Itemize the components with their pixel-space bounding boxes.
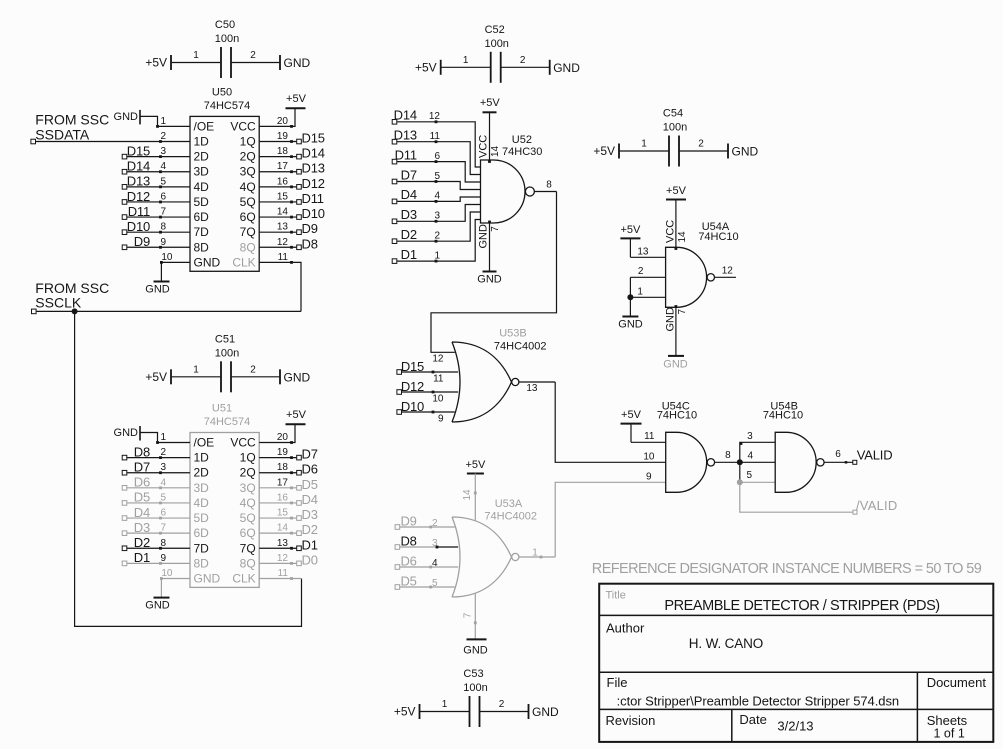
svg-text:8Q: 8Q — [240, 240, 256, 254]
svg-text:D9: D9 — [134, 234, 150, 249]
svg-text:12: 12 — [277, 553, 289, 564]
svg-text:7: 7 — [462, 612, 473, 618]
svg-text::ctor Stripper\Preamble Detect: :ctor Stripper\Preamble Detector Strippe… — [617, 694, 899, 709]
svg-text:/VALID: /VALID — [856, 498, 897, 513]
svg-text:7Q: 7Q — [240, 225, 256, 239]
svg-text:U50: U50 — [212, 87, 232, 99]
svg-text:5Q: 5Q — [240, 195, 256, 209]
svg-text:14: 14 — [490, 145, 501, 157]
svg-text:8D: 8D — [194, 240, 210, 254]
svg-text:13: 13 — [637, 246, 649, 257]
svg-text:D5: D5 — [134, 490, 150, 505]
svg-text:6D: 6D — [194, 210, 210, 224]
svg-text:9: 9 — [438, 413, 444, 424]
svg-text:3D: 3D — [194, 165, 210, 179]
svg-text:+5V: +5V — [593, 144, 615, 158]
svg-text:1: 1 — [193, 50, 199, 61]
svg-text:3D: 3D — [194, 481, 210, 495]
svg-text:74HC574: 74HC574 — [204, 416, 250, 428]
svg-text:+5V: +5V — [286, 409, 307, 421]
svg-text:D2: D2 — [401, 227, 417, 242]
svg-text:GND: GND — [284, 370, 311, 384]
svg-text:100n: 100n — [484, 38, 508, 50]
svg-text:FROM SSC: FROM SSC — [35, 280, 109, 296]
svg-text:File: File — [607, 675, 628, 690]
svg-text:D0: D0 — [302, 552, 318, 567]
svg-text:D13: D13 — [127, 174, 150, 189]
svg-text:2: 2 — [520, 55, 526, 66]
svg-text:3: 3 — [747, 431, 753, 442]
svg-text:D4: D4 — [302, 492, 318, 507]
svg-text:16: 16 — [277, 176, 289, 187]
svg-text:2: 2 — [250, 364, 256, 375]
svg-text:6Q: 6Q — [240, 210, 256, 224]
svg-text:8Q: 8Q — [240, 556, 256, 570]
svg-text:D7: D7 — [302, 447, 318, 462]
svg-text:D5: D5 — [400, 574, 416, 589]
svg-text:D8: D8 — [400, 534, 416, 549]
svg-text:GND: GND — [532, 705, 559, 719]
svg-text:SSCLK: SSCLK — [35, 295, 82, 311]
svg-text:GND: GND — [477, 273, 502, 285]
svg-text:74HC574: 74HC574 — [204, 100, 250, 112]
svg-text:1: 1 — [193, 364, 199, 375]
svg-text:3Q: 3Q — [240, 481, 256, 495]
svg-text:C51: C51 — [215, 333, 235, 345]
svg-text:20: 20 — [277, 432, 289, 443]
svg-text:12: 12 — [432, 354, 444, 365]
svg-text:3Q: 3Q — [240, 165, 256, 179]
svg-text:VCC: VCC — [478, 135, 490, 158]
svg-text:14: 14 — [277, 207, 289, 218]
svg-text:+5V: +5V — [415, 60, 437, 74]
svg-text:VALID: VALID — [857, 448, 893, 463]
svg-text:1D: 1D — [194, 451, 210, 465]
svg-text:2: 2 — [638, 266, 644, 277]
svg-text:+5V: +5V — [145, 56, 167, 70]
svg-text:FROM SSC: FROM SSC — [35, 112, 109, 128]
svg-text:PREAMBLE DETECTOR / STRIPPER (: PREAMBLE DETECTOR / STRIPPER (PDS) — [664, 598, 939, 614]
svg-text:GND: GND — [663, 359, 688, 371]
svg-text:D12: D12 — [127, 189, 150, 204]
svg-text:1: 1 — [641, 139, 647, 150]
svg-text:2D: 2D — [194, 150, 210, 164]
svg-text:4Q: 4Q — [240, 180, 256, 194]
svg-text:GND: GND — [478, 224, 490, 249]
svg-text:2: 2 — [250, 50, 256, 61]
svg-text:U52: U52 — [512, 134, 532, 146]
svg-text:7: 7 — [677, 309, 688, 315]
svg-text:8D: 8D — [194, 556, 210, 570]
svg-text:17: 17 — [277, 161, 289, 172]
svg-text:5Q: 5Q — [240, 511, 256, 525]
svg-text:D11: D11 — [395, 147, 417, 162]
svg-text:6D: 6D — [194, 526, 210, 540]
svg-text:5D: 5D — [194, 195, 210, 209]
svg-text:2: 2 — [698, 139, 704, 150]
svg-text:1Q: 1Q — [240, 451, 256, 465]
svg-text:8: 8 — [546, 180, 552, 191]
svg-text:4: 4 — [747, 451, 753, 462]
svg-text:C52: C52 — [485, 24, 505, 36]
svg-text:H. W. CANO: H. W. CANO — [689, 636, 763, 651]
svg-text:19: 19 — [277, 131, 289, 142]
svg-text:74HC10: 74HC10 — [698, 231, 738, 243]
svg-text:D2: D2 — [134, 535, 150, 550]
svg-text:VCC: VCC — [230, 119, 256, 133]
svg-text:D3: D3 — [302, 507, 318, 522]
svg-text:Revision: Revision — [606, 713, 656, 728]
svg-text:D10: D10 — [302, 206, 325, 221]
svg-text:/OE: /OE — [194, 119, 215, 133]
svg-text:D1: D1 — [302, 537, 318, 552]
svg-text:13: 13 — [526, 383, 538, 394]
svg-text:D9: D9 — [400, 514, 416, 529]
svg-text:D2: D2 — [302, 522, 318, 537]
svg-text:Document: Document — [927, 675, 987, 690]
svg-text:/OE: /OE — [194, 436, 215, 450]
svg-text:7Q: 7Q — [240, 541, 256, 555]
svg-text:74HC10: 74HC10 — [763, 410, 803, 422]
svg-text:16: 16 — [277, 492, 289, 503]
svg-text:8: 8 — [725, 450, 731, 461]
svg-text:1: 1 — [463, 55, 469, 66]
svg-text:13: 13 — [277, 538, 289, 549]
svg-text:D1: D1 — [134, 550, 150, 565]
svg-text:15: 15 — [277, 508, 289, 519]
svg-text:D11: D11 — [302, 191, 324, 206]
svg-text:7D: 7D — [194, 225, 210, 239]
svg-text:+5V: +5V — [666, 185, 687, 197]
svg-text:U53A: U53A — [495, 498, 523, 510]
svg-text:D4: D4 — [134, 505, 150, 520]
svg-text:7: 7 — [490, 226, 501, 232]
svg-text:GND: GND — [114, 427, 139, 439]
svg-text:9: 9 — [646, 471, 652, 482]
svg-text:74HC10: 74HC10 — [657, 410, 697, 422]
svg-text:+5V: +5V — [286, 93, 307, 105]
svg-text:Title: Title — [606, 590, 626, 602]
svg-text:VCC: VCC — [230, 436, 256, 450]
svg-text:U51: U51 — [212, 403, 232, 415]
svg-text:12: 12 — [277, 237, 289, 248]
svg-text:13: 13 — [277, 222, 289, 233]
svg-text:5D: 5D — [194, 511, 210, 525]
svg-text:D11: D11 — [128, 204, 150, 219]
svg-text:74HC4002: 74HC4002 — [494, 341, 547, 353]
svg-text:10: 10 — [643, 451, 655, 462]
svg-text:D3: D3 — [134, 520, 150, 535]
svg-text:Author: Author — [606, 621, 645, 636]
svg-text:14: 14 — [677, 231, 688, 243]
svg-text:2: 2 — [499, 699, 505, 710]
svg-text:1: 1 — [160, 432, 166, 443]
svg-text:10: 10 — [432, 393, 444, 404]
svg-text:10: 10 — [161, 252, 173, 263]
svg-text:11: 11 — [433, 373, 444, 384]
svg-text:D1: D1 — [401, 247, 417, 262]
svg-text:+5V: +5V — [394, 705, 416, 719]
svg-text:REFERENCE DESIGNATOR INSTANCE: REFERENCE DESIGNATOR INSTANCE NUMBERS = … — [592, 561, 982, 577]
svg-text:+5V: +5V — [465, 459, 486, 471]
svg-text:GND: GND — [145, 599, 170, 611]
svg-text:14: 14 — [277, 523, 289, 534]
svg-text:GND: GND — [145, 283, 170, 295]
svg-text:15: 15 — [277, 191, 289, 202]
svg-text:11: 11 — [644, 431, 655, 442]
svg-text:4D: 4D — [194, 180, 210, 194]
svg-text:D14: D14 — [127, 159, 150, 174]
svg-text:D7: D7 — [134, 460, 150, 475]
svg-text:GND: GND — [194, 571, 221, 585]
svg-text:6: 6 — [835, 449, 841, 460]
svg-text:74HC30: 74HC30 — [502, 146, 542, 158]
svg-text:CLK: CLK — [232, 571, 255, 585]
svg-text:+5V: +5V — [621, 409, 642, 421]
svg-text:5: 5 — [746, 470, 752, 481]
svg-text:D3: D3 — [401, 207, 417, 222]
svg-text:D8: D8 — [302, 236, 318, 251]
svg-text:VCC: VCC — [664, 220, 676, 243]
svg-text:100n: 100n — [215, 33, 239, 45]
svg-text:2Q: 2Q — [240, 466, 256, 480]
svg-text:U53B: U53B — [499, 328, 527, 340]
svg-text:+5V: +5V — [145, 370, 167, 384]
svg-text:10: 10 — [161, 568, 173, 579]
svg-text:GND: GND — [194, 255, 221, 269]
svg-text:Date: Date — [739, 712, 766, 727]
svg-text:100n: 100n — [463, 682, 487, 694]
svg-text:D10: D10 — [127, 219, 150, 234]
svg-text:D6: D6 — [400, 554, 416, 569]
svg-text:18: 18 — [277, 146, 289, 157]
svg-text:1: 1 — [442, 699, 448, 710]
svg-text:D5: D5 — [302, 477, 318, 492]
svg-text:D6: D6 — [302, 462, 318, 477]
svg-text:2D: 2D — [194, 466, 210, 480]
svg-text:74HC4002: 74HC4002 — [484, 510, 537, 522]
svg-text:1Q: 1Q — [240, 135, 256, 149]
svg-text:1: 1 — [532, 548, 538, 559]
svg-text:11: 11 — [278, 568, 289, 579]
svg-text:7D: 7D — [194, 541, 210, 555]
svg-text:17: 17 — [277, 477, 289, 488]
svg-text:20: 20 — [277, 116, 289, 127]
svg-text:1: 1 — [160, 116, 166, 127]
svg-text:C54: C54 — [663, 108, 683, 120]
svg-text:100n: 100n — [663, 122, 687, 134]
svg-text:C53: C53 — [463, 668, 483, 680]
svg-text:+5V: +5V — [480, 97, 501, 109]
svg-text:4D: 4D — [194, 496, 210, 510]
svg-text:SSDATA: SSDATA — [35, 126, 90, 142]
svg-text:6Q: 6Q — [240, 526, 256, 540]
svg-text:1D: 1D — [194, 135, 210, 149]
svg-text:GND: GND — [114, 111, 139, 123]
svg-text:GND: GND — [664, 307, 676, 332]
svg-text:D12: D12 — [302, 176, 325, 191]
svg-text:+5V: +5V — [620, 224, 641, 236]
svg-text:3/2/13: 3/2/13 — [777, 719, 813, 734]
svg-text:D13: D13 — [302, 161, 325, 176]
svg-text:D6: D6 — [134, 475, 150, 490]
svg-text:GND: GND — [618, 319, 643, 331]
svg-text:D9: D9 — [302, 221, 318, 236]
svg-text:D14: D14 — [302, 146, 325, 161]
svg-text:1: 1 — [637, 286, 643, 297]
svg-text:GND: GND — [284, 56, 311, 70]
svg-text:2Q: 2Q — [240, 150, 256, 164]
svg-text:100n: 100n — [215, 347, 239, 359]
svg-text:CLK: CLK — [232, 255, 255, 269]
svg-text:1 of 1: 1 of 1 — [934, 727, 965, 741]
svg-text:14: 14 — [462, 489, 473, 501]
svg-text:18: 18 — [277, 462, 289, 473]
svg-text:D8: D8 — [134, 444, 150, 459]
svg-text:D7: D7 — [401, 167, 417, 182]
svg-text:D15: D15 — [127, 143, 150, 158]
svg-text:12: 12 — [722, 265, 734, 276]
svg-text:D15: D15 — [302, 131, 325, 146]
svg-text:11: 11 — [278, 252, 289, 263]
svg-text:C50: C50 — [215, 19, 235, 31]
svg-text:GND: GND — [463, 645, 488, 657]
svg-text:D4: D4 — [401, 187, 417, 202]
svg-text:4Q: 4Q — [240, 496, 256, 510]
svg-text:19: 19 — [277, 447, 289, 458]
svg-text:GND: GND — [732, 145, 759, 159]
svg-text:GND: GND — [553, 61, 580, 75]
